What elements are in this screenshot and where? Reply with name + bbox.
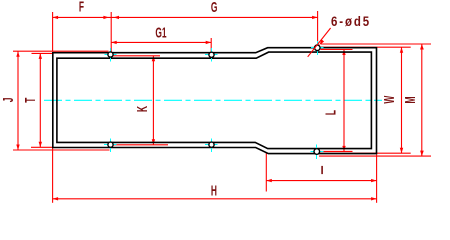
svg-text:L: L <box>322 110 339 115</box>
svg-text:M: M <box>402 96 419 103</box>
dimension L line <box>343 50 345 152</box>
svg-text:K: K <box>134 106 151 112</box>
dimension G1 line <box>111 41 211 43</box>
extension line J top (y=51.2) <box>13 50 109 52</box>
extension line J bottom (y=150) <box>13 149 110 151</box>
extension line I left (x=266.8) <box>265 153 267 192</box>
svg-text:G1: G1 <box>155 24 167 41</box>
svg-text:6-ød5: 6-ød5 <box>331 14 371 29</box>
dimension H line <box>53 198 377 200</box>
extension line M top (y=44) <box>321 43 431 45</box>
hole 6 bottom-right <box>311 151 324 153</box>
part outer outline <box>53 48 377 154</box>
dimension F line <box>53 16 112 18</box>
svg-text:J: J <box>0 98 17 103</box>
svg-text:H: H <box>211 182 217 199</box>
hole 3 top-right <box>311 47 324 49</box>
dimension M line <box>421 44 423 156</box>
extension line W top (y=47.2) <box>321 46 411 48</box>
hole 1 top-left <box>105 54 117 56</box>
extension line K top (y=55.8) <box>112 55 160 57</box>
part inner outline <box>57 52 372 149</box>
label I <box>321 166 323 174</box>
extension line T top (y=53.4) <box>32 52 54 54</box>
extension line T bottom (y=147.3) <box>31 146 54 148</box>
dimension T line <box>39 53 41 147</box>
extension line M bottom (y=156.1) <box>319 155 431 157</box>
svg-text:F: F <box>79 0 84 15</box>
extension line left top (x=52.6) <box>52 12 54 52</box>
dimension K line <box>152 56 154 145</box>
dimension W line <box>401 47 403 153</box>
extension line hole1 (x=110.8) <box>110 12 112 52</box>
extension line K bottom (y=144.8) <box>113 144 169 146</box>
extension line H/I right (x=376.6) <box>376 155 378 203</box>
hole 2 top-middle <box>205 54 218 56</box>
extension line W bottom (y=153.2) <box>319 152 411 154</box>
extension line hole3 (x=317.6) <box>317 11 319 44</box>
svg-text:T: T <box>22 97 39 103</box>
svg-text:G: G <box>211 0 218 15</box>
dimension G line <box>111 16 317 18</box>
extension line hole2 (x=211.2) <box>210 38 212 53</box>
extension line H left (x=52.6 bottom) <box>52 148 54 203</box>
hole 4 bottom-left <box>104 144 117 146</box>
dimension I line <box>266 180 376 182</box>
svg-text:W: W <box>381 95 398 104</box>
centerline <box>44 99 382 101</box>
leader line 6-od5 <box>308 28 331 57</box>
hole 5 bottom-middle <box>205 144 218 146</box>
extension line L bottom (y=151.4) <box>319 150 353 152</box>
extension line L top (y=49.5) <box>321 49 353 51</box>
dimension J line <box>17 51 19 150</box>
